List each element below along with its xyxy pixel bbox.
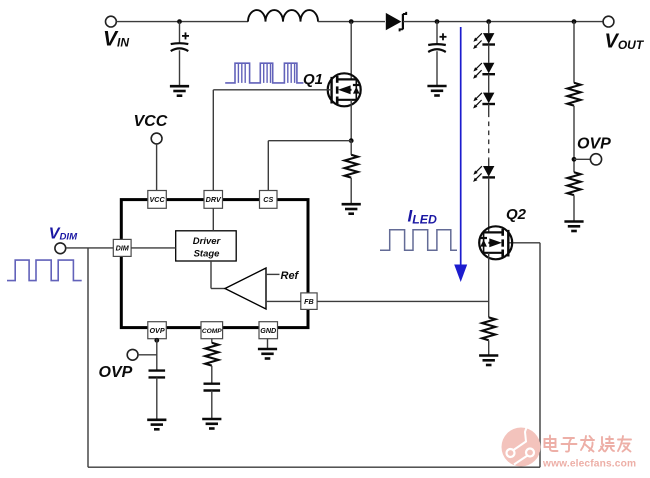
svg-text:Q1: Q1 [303, 71, 323, 88]
svg-text:GND: GND [260, 326, 276, 335]
wire: DRV to Q1 gate [213, 89, 331, 91]
wire: OVP pin down [156, 339, 158, 371]
V_DIM terminal [55, 243, 66, 254]
Q1 gate PWM waveform (blue) [225, 63, 303, 83]
LED D5 [483, 166, 494, 177]
capacitor C_in (polarized input cap) [182, 35, 189, 37]
ground (GND pin) [258, 348, 277, 351]
wire [488, 104, 490, 113]
LED D2 [483, 33, 494, 44]
wire: Ref input [266, 273, 280, 275]
wire: DIM pin to Driver Stage [131, 247, 176, 249]
blue I_LED current arrow line [460, 27, 462, 265]
wire: diode to V_OUT [403, 21, 603, 23]
wire: Q2 source down [488, 253, 490, 318]
ground (R_sense) [479, 354, 498, 357]
watermark text (stylized CJK strokes) [545, 436, 632, 452]
wire: dim loop right vertical to Q2 gate [539, 243, 541, 467]
wire: input cap to ground [179, 50, 181, 86]
svg-text:VCC: VCC [149, 195, 165, 204]
wire [488, 74, 490, 92]
svg-text:FB: FB [304, 297, 314, 306]
pin DIM [113, 239, 131, 256]
svg-text:Driver: Driver [193, 236, 222, 247]
pin OVP [148, 322, 167, 339]
OVP terminal (right) [590, 154, 601, 165]
transistor Q1 (NMOS with body diode) [328, 73, 361, 106]
wire: dim loop left vertical [87, 248, 89, 467]
capacitor C_out (polarized output cap) [440, 36, 447, 38]
wire: comparator to FB pin [266, 300, 301, 302]
LED D3 [483, 63, 494, 74]
wire: OVP tap to terminal [574, 158, 591, 160]
capacitor C_comp [204, 383, 221, 385]
I_LED waveform (blue) [380, 230, 457, 251]
wire: dashed LED string continuation [488, 113, 490, 159]
OVP terminal (left) [127, 349, 138, 360]
svg-text:Ref: Ref [281, 270, 300, 282]
wire: OVP terminal to pin line [138, 354, 157, 356]
wire: output cap to ground [436, 51, 438, 86]
node: OVP divider junction [572, 19, 577, 24]
wire: CS sense line [268, 140, 351, 142]
wire: LED string top [488, 22, 490, 33]
wire: VCC terminal to VCC pin [156, 144, 158, 191]
wire: FB pin to sense node [317, 300, 489, 302]
wire: Q1 source [350, 100, 352, 141]
schottky diode D1 [386, 13, 402, 30]
node: CS junction [349, 138, 354, 143]
ground (Q1 sense resistor) [342, 203, 361, 206]
svg-text:www.elecfans.com: www.elecfans.com [542, 459, 636, 470]
svg-text:OVP: OVP [149, 326, 164, 335]
resistor R_cs (Q1 source sense) [350, 141, 352, 155]
wire: Q2 gate lead [508, 242, 540, 244]
op-amp comparator [225, 268, 266, 309]
V_OUT output terminal [603, 16, 614, 27]
wire: inductor to diode [318, 21, 385, 23]
node: output cap junction [435, 19, 440, 24]
ground (COMP) [202, 418, 221, 421]
capacitor C_ovp [149, 369, 166, 371]
wire: Q1 drain [350, 22, 352, 80]
pin CS [260, 191, 278, 209]
wire: GND pin down [267, 339, 269, 349]
svg-text:COMP: COMP [202, 328, 222, 335]
resistor R_ovp2 [567, 172, 580, 195]
VCC terminal [151, 133, 162, 144]
V_DIM PWM waveform (blue) [7, 260, 82, 281]
node: OVP tap [572, 157, 577, 162]
svg-text:Stage: Stage [194, 248, 221, 259]
ground (input cap) [170, 85, 189, 88]
wire: dim loop bottom horizontal [88, 466, 540, 468]
transistor Q2 (NMOS dimming switch, mirrored) [479, 226, 512, 259]
wire: DRV pin to Driver Stage [212, 208, 214, 231]
LED D4 [483, 93, 494, 104]
svg-text:OVP: OVP [99, 364, 133, 381]
resistor R_sense (LED current sense) [482, 317, 495, 340]
wire [488, 159, 490, 166]
svg-text:VCC: VCC [134, 113, 168, 130]
pin FB [301, 293, 317, 310]
svg-text:CS: CS [263, 195, 273, 204]
resistor R_ovp1 [567, 83, 580, 106]
IC controller block [121, 200, 308, 328]
svg-text:DRV: DRV [206, 195, 222, 204]
wire [488, 45, 490, 63]
ground (OVP cap) [147, 418, 166, 421]
pin COMP [201, 322, 223, 339]
pin GND [259, 322, 278, 339]
V_IN input terminal [106, 16, 117, 27]
watermark logo [502, 425, 541, 466]
wire: LED string to Q2 drain [488, 177, 490, 232]
wire: C_ovp to ground [156, 377, 158, 419]
svg-text:OVP: OVP [577, 136, 611, 153]
wire: Driver Stage to comparator [210, 261, 212, 289]
wire: junction to input capacitor [179, 22, 181, 44]
wire [573, 106, 575, 173]
node: Q1 drain junction [349, 19, 354, 24]
svg-text:DIM: DIM [116, 244, 130, 253]
wire: junction to output capacitor [436, 22, 438, 44]
wire: R_comp to C_comp [211, 366, 213, 384]
svg-text:Q2: Q2 [506, 206, 527, 223]
resistor R_comp [205, 343, 218, 366]
wire: OVP divider top [573, 22, 575, 83]
Driver Stage block [176, 231, 237, 261]
pin DRV [204, 191, 223, 209]
wire: V_DIM to DIM pin [66, 247, 114, 249]
ground (OVP divider) [564, 220, 583, 223]
wire: C_comp to ground [211, 391, 213, 420]
wire: R_sense to ground [488, 340, 490, 355]
node: input cap junction [177, 19, 182, 24]
node: LED string junction [486, 19, 491, 24]
inductor L1 [248, 10, 318, 21]
wire: top rail VIN to inductor [116, 21, 248, 23]
pin VCC [148, 191, 167, 209]
wire: COMP pin down [211, 339, 213, 343]
ground (output cap) [427, 85, 446, 88]
wire [573, 195, 575, 221]
OVP pin node [154, 338, 159, 343]
